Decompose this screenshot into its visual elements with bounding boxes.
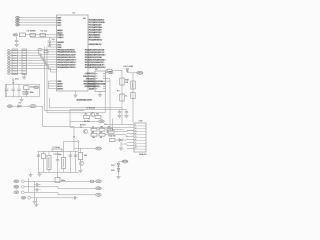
wire junction drop <box>77 142 79 151</box>
wire CN2 pin 1 stub <box>127 124 134 126</box>
pin divider CN2 2 <box>134 128 146 130</box>
wire U2 bottom feed <box>104 92 106 113</box>
capacitor C3 <box>30 34 35 37</box>
wire c20 v <box>38 151 40 172</box>
wire zener top <box>119 162 123 164</box>
pin label PB7 U1 <box>57 22 61 24</box>
pad IN <box>21 191 24 194</box>
transistor T3 <box>83 129 88 134</box>
wire U1 ground stub <box>75 91 77 95</box>
ground T4 <box>78 171 82 173</box>
svg-text:PD1(TXD)PCINT17: PD1(TXD)PCINT17 <box>85 52 105 54</box>
ground crystal right <box>47 45 51 47</box>
wire CN1 to RN1 row 5 <box>18 60 23 62</box>
svg-text:R14 10k: R14 10k <box>109 136 116 138</box>
pin tick U2 right row 2 <box>103 75 105 77</box>
wire power rail top <box>6 83 40 85</box>
pin label PD7(AIN1)PCIN23 U1 <box>57 64 76 66</box>
capacitor C16 <box>125 112 128 113</box>
svg-text:GND: GND <box>14 187 19 189</box>
wire c31 stub2 <box>38 184 41 186</box>
ground D4 <box>119 148 123 150</box>
pin tick U2 right row 6 <box>103 85 105 87</box>
wire CN1 pin 7 stub <box>10 65 12 67</box>
wire rail gnd stub <box>39 172 41 174</box>
svg-text:PB2(SS): PB2(SS) <box>86 78 94 80</box>
capacitor C15 <box>118 112 121 113</box>
svg-text:2k2: 2k2 <box>100 132 103 134</box>
wire c25 v <box>75 151 77 172</box>
capacitor C14 <box>25 92 28 93</box>
pad CN1 pin 8 <box>7 67 10 69</box>
svg-text:8: 8 <box>135 145 136 147</box>
pin tick U2 right row 3 <box>103 78 105 80</box>
net label PC4(ADC4)X <box>89 29 102 31</box>
ground C16 <box>124 115 128 117</box>
resistor R16 <box>110 139 116 142</box>
capacitor C30 <box>74 196 75 199</box>
wire D2 to IC1 <box>48 51 57 53</box>
wire C15 stub <box>119 110 121 112</box>
wire bottom rail top <box>38 150 79 152</box>
pin tick RN1 row 1 <box>22 49 26 51</box>
varistor RV1 <box>47 156 51 170</box>
wire CN1 pin 6 stub <box>10 62 12 64</box>
net label MOSI <box>38 48 42 50</box>
pin tick RN1 row 6 <box>22 62 26 64</box>
diode D1 <box>18 105 21 108</box>
pin label PB6 U1 <box>57 19 61 21</box>
wire bus CN1 row 7 to IC1 <box>27 66 57 70</box>
wire C16 stub <box>126 110 128 112</box>
diode D4 <box>119 139 122 142</box>
wire R14 to CN2 <box>114 131 134 132</box>
wire U2 right drop <box>109 79 111 113</box>
pin label PB1(OC1A) U2 <box>83 75 94 77</box>
resistor R6 <box>99 128 105 131</box>
wire bus CN1 row 8 to IC1 <box>27 68 57 72</box>
wire CN2 pin 7 stub <box>127 142 134 144</box>
wire D3 to VUSB <box>127 72 136 74</box>
wire C10 top <box>6 84 8 89</box>
svg-text:GND: GND <box>57 81 62 83</box>
ground top piece <box>28 175 32 177</box>
svg-text:VIN: VIN <box>8 106 12 108</box>
wire bus CN1 row 3 to IC1 <box>27 56 57 60</box>
pin tick CN1 row 7 <box>12 65 17 67</box>
svg-text:PB2(SS)OC1B PCI: PB2(SS)OC1B PCI <box>57 57 75 59</box>
resistor R13 <box>131 93 135 99</box>
wire PB7 to IC1 <box>20 19 57 21</box>
pin label VCC U1 <box>57 24 61 26</box>
pin tick RN1 row 5 <box>22 60 26 62</box>
wire vertical x133 <box>132 73 134 123</box>
wire rv1 v2 <box>48 170 50 173</box>
pin label AREF U2 <box>89 88 94 90</box>
wire into CN2 b <box>70 127 127 129</box>
net label PC2(ADC2)T <box>89 24 102 26</box>
net label SH left <box>21 197 26 200</box>
wire cluster top <box>70 109 127 111</box>
ground SH <box>34 205 38 207</box>
pin label GND U1 <box>57 80 61 82</box>
svg-text:PD4(XCK/T0)PCI20: PD4(XCK/T0)PCI20 <box>85 59 105 61</box>
svg-text:C13: C13 <box>30 86 33 88</box>
net label GND left <box>14 185 19 188</box>
wire U2 stub r4 <box>106 80 111 82</box>
svg-text:PB4(MISO): PB4(MISO) <box>84 83 95 85</box>
svg-text:PB0(ICP1)PCINT0: PB0(ICP1)PCINT0 <box>57 62 75 64</box>
connector CN1 <box>12 49 18 75</box>
pin label AREF U1 <box>57 83 62 85</box>
wire zener mid <box>118 166 120 168</box>
svg-text:PB0(ICP): PB0(ICP) <box>86 73 95 75</box>
label RV1 rotated <box>48 157 49 168</box>
wire CN1 to RN1 row 8 <box>18 67 23 69</box>
net label PD6(AIN0)OC0A lower <box>89 83 106 85</box>
pin divider CN2 9 <box>134 148 146 150</box>
resistor R11 <box>120 94 124 101</box>
wire bus v3 <box>47 47 105 113</box>
pad SH <box>28 196 31 199</box>
wire CN1 to RN1 row 7 <box>18 65 23 67</box>
svg-text:2: 2 <box>135 127 136 129</box>
pin label AGND U1 <box>57 88 62 90</box>
wire c31 stub <box>35 184 37 186</box>
label R12 rotated <box>132 82 133 88</box>
svg-text:3V6: 3V6 <box>111 170 114 172</box>
net label PD5(T1)OC0B lower <box>89 81 104 83</box>
wire CN1 pin 3 stub <box>10 55 12 57</box>
capacitor C6 <box>48 41 51 42</box>
wire CN2 pin 9 stub <box>127 148 134 150</box>
ic U1 ATMEGA8 body <box>57 15 89 91</box>
wire vcc row <box>74 148 95 150</box>
capacitor C12 <box>17 89 20 90</box>
zener ZD2 <box>117 168 120 171</box>
pin tick U2 right row 7 <box>103 88 105 90</box>
wire junction row <box>64 141 78 143</box>
pad CN1 pin 2 <box>7 52 10 54</box>
ground U1 <box>73 95 77 97</box>
pin label XTAL1 U1 <box>57 34 63 36</box>
pin label XTAL2 U1 <box>57 37 63 39</box>
wire U2 stub r3 <box>106 78 111 80</box>
resistor R7 <box>107 128 113 131</box>
pin tick RN1 row 9 <box>22 70 26 72</box>
svg-text:PB4(MISO)PCINT4: PB4(MISO)PCINT4 <box>57 52 76 54</box>
wire C15 gnd stub <box>119 113 121 115</box>
wire power rail bottom <box>6 96 40 98</box>
svg-text:PB5(SCK): PB5(SCK) <box>85 86 95 88</box>
diode D3 <box>126 69 129 72</box>
pin divider CN2 4 <box>134 134 146 136</box>
wire vertical feed x50 <box>49 42 51 47</box>
pad CN1 pin 4 <box>7 57 10 59</box>
net label GND right <box>96 187 102 190</box>
net label IN right <box>96 193 102 196</box>
capacitor C4 <box>40 34 45 37</box>
pin label PB2(SS) U2 <box>86 78 95 80</box>
svg-text:R10: R10 <box>125 80 128 82</box>
inductor L1 <box>52 149 62 151</box>
wire CN1 pin 5 stub <box>10 60 12 62</box>
capacitor C25 <box>74 155 77 156</box>
svg-text:BC557: BC557 <box>80 125 86 127</box>
wire C11 bottom <box>12 91 14 97</box>
ground crystal left <box>15 45 19 47</box>
svg-text:OSC: OSC <box>13 35 18 37</box>
resistor R12 <box>131 81 135 89</box>
pin divider CN2 5 <box>134 137 146 139</box>
capacitor C32 <box>36 188 37 191</box>
wire U2 R stub <box>106 69 108 71</box>
wire bus v2 <box>45 47 85 111</box>
svg-text:T2 BC547: T2 BC547 <box>86 108 96 110</box>
pin label PB1(OC1A)PCINT1 U1 <box>57 59 76 61</box>
svg-text:T3: T3 <box>80 127 82 129</box>
wire v x112.5 <box>112 118 114 129</box>
svg-text:PC6(RESET): PC6(RESET) <box>89 39 102 41</box>
svg-text:ZD1: ZD1 <box>111 165 115 167</box>
wire C4 down <box>48 37 50 40</box>
pin label RESET U1 <box>57 41 63 43</box>
pad OUT <box>21 180 24 183</box>
wire bus CN1 row 6 to IC1 <box>27 63 57 67</box>
svg-text:VBUS: VBUS <box>122 161 128 163</box>
wire R16 to CN2 <box>115 139 119 141</box>
wire D4 to CN2 <box>123 138 127 141</box>
net label OUT right <box>96 180 102 183</box>
svg-text:4k7: 4k7 <box>92 132 95 134</box>
svg-text:9: 9 <box>135 148 136 150</box>
net label PD6(AIN0)OC0A P <box>85 64 105 66</box>
svg-text:VCC: VCC <box>34 87 39 89</box>
pad CN1 pin 3 <box>7 55 10 57</box>
crystal X1 <box>19 33 25 37</box>
wire CN1 to RN1 row 4 <box>18 57 23 59</box>
pin tick U2 row 7 <box>95 88 97 90</box>
node bus junction <box>73 136 75 138</box>
wire into U1 bottom row y83.5 <box>49 83 57 85</box>
wire bus v4 <box>50 98 123 108</box>
svg-text:22p: 22p <box>52 39 55 41</box>
wire U1 bottom feed v <box>48 81 50 89</box>
wire c21 v2 <box>43 159 45 173</box>
wire zener bottom <box>118 171 120 176</box>
wire T4 drop <box>80 149 82 153</box>
transistor T2 <box>90 112 95 117</box>
svg-text:4k7: 4k7 <box>85 114 88 116</box>
ground vlink <box>32 201 36 203</box>
svg-text:RST: RST <box>57 17 62 19</box>
pin tick CN1 row 1 <box>12 49 17 51</box>
inductor L3 <box>23 91 28 94</box>
wire C14 bottom <box>25 94 27 97</box>
wire CN2 pin 2 stub <box>127 127 134 129</box>
svg-text:D5: D5 <box>104 124 106 126</box>
svg-text:7: 7 <box>135 142 136 144</box>
wire power rail left edge <box>5 84 7 97</box>
pin divider CN2 1 <box>134 125 146 127</box>
capacitor C26 <box>55 178 60 183</box>
resistor R5b <box>91 133 97 136</box>
pin tick U2 right row 5 <box>103 83 105 85</box>
net label RST <box>16 21 21 24</box>
net label PD2(INT0)PCINT18 <box>85 54 106 56</box>
pin label PB5(SCK)PCINT5 U1 <box>57 49 75 51</box>
svg-text:6: 6 <box>135 139 136 141</box>
resistor R6b <box>99 133 105 136</box>
pin divider CN2 8 <box>134 145 146 147</box>
wire rail ground stub <box>21 97 23 99</box>
svg-text:VCC: VCC <box>96 148 101 150</box>
wire cluster row to CN2 b2 <box>126 135 127 137</box>
label ATMEGA8 part <box>77 99 92 101</box>
net label PD3(INT1)OC2B <box>85 57 102 59</box>
wire CN1 pin 4 stub <box>10 57 12 59</box>
resistor R4 <box>95 116 101 119</box>
wire C3 down <box>16 37 18 40</box>
wire into U1 bottom row y88.5 <box>49 88 57 90</box>
pin tick RN1 row 4 <box>22 57 26 59</box>
wire bus CN1 row 4 to IC1 <box>27 58 57 62</box>
resistor R15 <box>78 153 82 160</box>
pin label GND U1 <box>57 46 61 48</box>
net label +5V <box>16 24 20 27</box>
wire bus CN1 row 1 to IC1 <box>27 50 57 54</box>
pin label AREF U1 <box>57 30 62 32</box>
pin label AVCC U1 <box>57 85 62 87</box>
wire VCC to bus <box>36 105 42 107</box>
node junction top right <box>77 141 79 143</box>
svg-text:10k: 10k <box>84 155 87 157</box>
wire c22 v2 <box>57 161 59 172</box>
svg-text:4: 4 <box>135 133 136 135</box>
pad CN1 pin 9 <box>7 70 10 72</box>
pad CN1 pin 7 <box>7 65 10 67</box>
wire OUT row <box>24 180 95 182</box>
pin divider CN2 7 <box>134 142 146 144</box>
pad CN1 pin 5 <box>7 60 10 62</box>
pin tick U2 right row 1 <box>103 73 105 75</box>
wire CN1 pin 1 stub <box>10 49 12 51</box>
net label TXD <box>99 120 105 123</box>
net label VCC3 <box>96 147 102 150</box>
capacitor C21 electrolytic <box>42 154 46 159</box>
wire rv1 v1 <box>48 151 50 155</box>
wire CN1 to RN1 row 3 <box>18 55 23 57</box>
wire XTAL2 stub <box>30 36 35 38</box>
wire to IC1 row y44.5 <box>50 44 57 46</box>
wire D4 gnd stub <box>120 142 122 148</box>
wire CN1 pin 2 stub <box>10 52 12 54</box>
wire R15 to T4 <box>80 160 82 162</box>
pin label PB4(MISO) U2 <box>83 83 94 85</box>
wire c23 feed <box>63 142 65 152</box>
net label VCC2 <box>34 86 39 89</box>
capacitor C23 electrolytic <box>62 158 66 169</box>
resistor R3 <box>84 116 90 119</box>
ground RN1 <box>22 77 26 79</box>
net label ADC7(AIN) <box>89 37 101 39</box>
wire power rail right edge <box>39 84 41 97</box>
net label PC1(ADC1)SDA <box>89 22 105 24</box>
wire VIN to D1 <box>13 105 18 107</box>
label C23 rotated <box>63 159 64 168</box>
svg-text:R3 1k5: R3 1k5 <box>84 121 90 123</box>
pin label PB3(MOSI)OC2A P U1 <box>57 54 76 56</box>
pin tick U2 row 5 <box>95 83 97 85</box>
pin label PD6(AIN0)PCIN22 U1 <box>57 66 76 68</box>
wire vertical x70 <box>69 110 71 127</box>
pad CN1 pin 6 <box>7 62 10 64</box>
svg-text:3: 3 <box>135 130 136 132</box>
zener ZD1 <box>117 163 120 166</box>
net label PC5(ADC5)Y <box>89 32 102 34</box>
wire XTAL1 <box>25 34 56 36</box>
svg-text:C3 22p: C3 22p <box>41 31 48 33</box>
ground bottom rail <box>37 174 41 176</box>
pin tick CN1 row 3 <box>12 55 17 57</box>
net label PB6(XTAL1) <box>89 44 102 46</box>
pin tick U2 row 1 <box>95 73 97 75</box>
pin tick CN1 row 9 <box>12 70 17 72</box>
ground zener <box>116 177 120 179</box>
svg-text:1k: 1k <box>125 96 127 98</box>
svg-text:D3 LL4148: D3 LL4148 <box>124 66 133 68</box>
svg-text:PD2(INT0)PCINT18: PD2(INT0)PCINT18 <box>85 54 105 56</box>
svg-text:1: 1 <box>135 125 136 127</box>
pin tick CN1 row 2 <box>12 52 17 54</box>
svg-text:VCC: VCC <box>15 79 20 81</box>
ground U2 <box>98 95 102 97</box>
svg-text:2: 2 <box>89 119 90 121</box>
svg-text:PD5(T1)OC0B PCI: PD5(T1)OC0B PCI <box>85 62 104 64</box>
wire c23 v1 <box>63 151 65 157</box>
pin label PB5(SCK) U2 <box>84 86 94 88</box>
capacitor C24 <box>69 155 72 156</box>
pin divider CN2 6 <box>134 139 146 141</box>
net label PD1(TXD)PCINT17 <box>85 52 105 54</box>
net label OSC <box>13 34 18 37</box>
svg-text:PB3(MOSI): PB3(MOSI) <box>84 81 95 83</box>
wire CN1 to RN1 row 9 <box>18 70 23 72</box>
wire bus CN1 row 5 to IC1 <box>27 61 57 65</box>
pin tick CN1 row 8 <box>12 67 17 69</box>
svg-text:VBUS: VBUS <box>137 73 143 75</box>
node VCC supply <box>12 79 14 81</box>
wire C5 to ground <box>16 42 18 44</box>
wire PB6 to IC1 <box>20 17 57 19</box>
wire c22 v <box>57 151 59 159</box>
wire CN2 pin 3 stub <box>127 130 134 132</box>
svg-text:100n: 100n <box>30 92 34 94</box>
svg-text:RESET: RESET <box>57 42 65 44</box>
svg-text:(B): (B) <box>109 72 112 74</box>
pin tick RN1 row 2 <box>22 52 26 54</box>
wire RN1 ground stub <box>23 75 25 77</box>
pin label PB2(SS)OC1B PCI U1 <box>57 56 76 58</box>
wire c32 stub2 <box>38 189 41 191</box>
pad GND <box>21 185 24 188</box>
wire C12 top <box>18 84 20 89</box>
wire C12 bottom <box>18 91 20 97</box>
wire CN2 pin 4 stub <box>127 133 134 135</box>
wire XTAL2 <box>35 36 56 38</box>
wire into CN2 a <box>105 124 127 126</box>
pin label VCC U1 <box>57 44 61 46</box>
